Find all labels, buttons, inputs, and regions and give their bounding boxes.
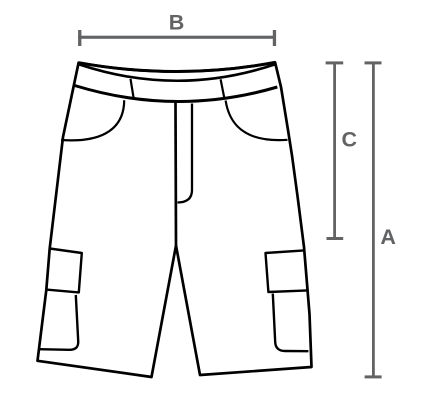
svg-text:C: C: [342, 127, 358, 151]
center front seam: [174, 103, 177, 246]
right front pocket curve: [226, 101, 288, 141]
dimension line A: [365, 61, 382, 378]
left cargo pocket flap: [46, 249, 82, 293]
dimension line B: [78, 30, 276, 46]
dimension line C: [326, 61, 344, 240]
waistband top edge curve: [79, 62, 276, 71]
waistband bottom seam curve: [75, 86, 278, 102]
svg-text:A: A: [380, 225, 396, 249]
waistband seam right: [221, 79, 225, 99]
right cargo pocket flap: [266, 250, 308, 292]
waistband inner curve: [80, 65, 275, 81]
right cargo pocket body: [273, 294, 309, 352]
svg-text:B: B: [169, 10, 185, 34]
left cargo pocket body: [39, 295, 78, 350]
shorts silhouette outline: [38, 62, 312, 377]
left front pocket curve: [61, 100, 124, 140]
fly J-stitch: [178, 104, 193, 203]
waistband seam left: [131, 79, 134, 99]
